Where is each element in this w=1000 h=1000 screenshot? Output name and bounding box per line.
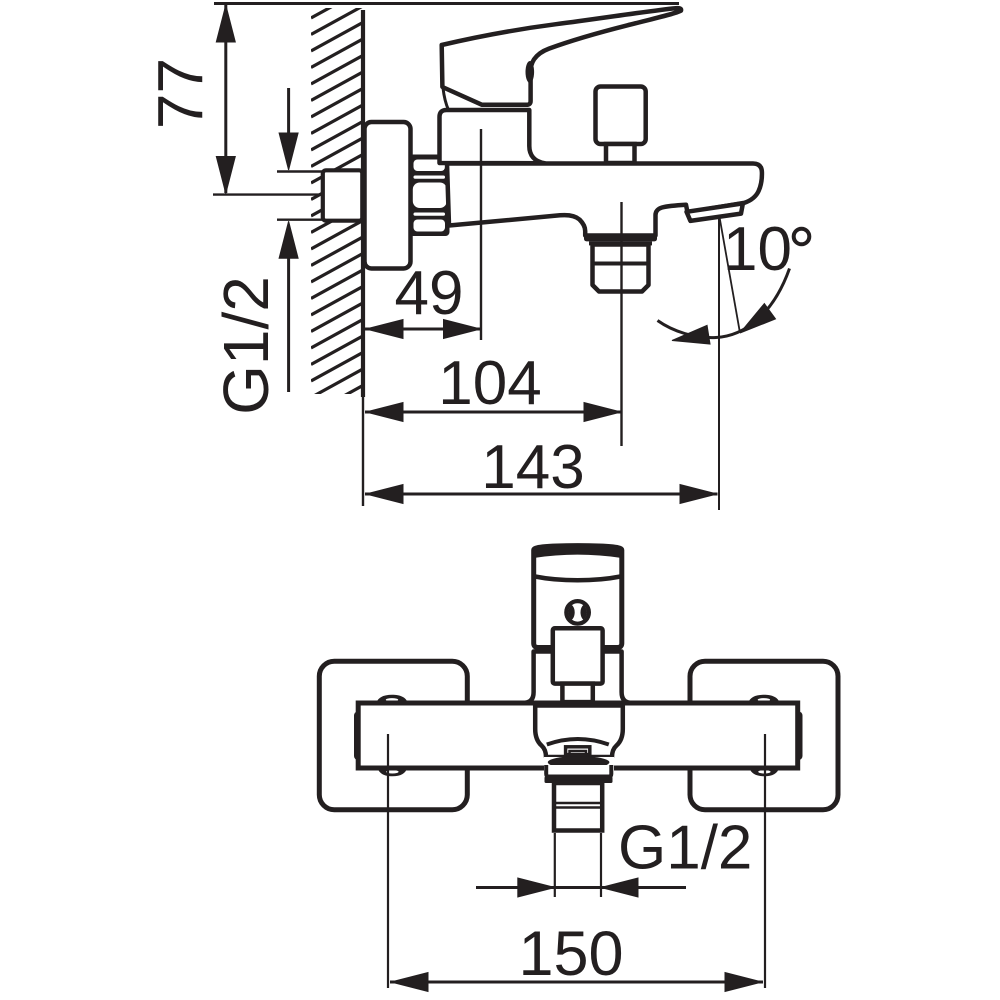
centerline through shower port (104) xyxy=(620,202,622,446)
ext line pipe left xyxy=(554,833,556,897)
pipe axis centerline xyxy=(213,193,388,195)
escutcheon flange xyxy=(365,122,411,269)
wall hatching xyxy=(311,0,363,414)
dim 143 xyxy=(365,493,718,496)
spout funnel (front view) xyxy=(535,706,623,758)
svg-text:77: 77 xyxy=(145,58,217,129)
handle (front view) xyxy=(534,546,622,648)
handle band arc xyxy=(535,577,621,581)
dim 150 xyxy=(390,981,763,984)
dim 49 xyxy=(365,328,481,331)
eraser under cup xyxy=(544,757,614,783)
shower port step xyxy=(589,241,652,245)
aerator arch xyxy=(547,739,609,745)
ext line left plate center xyxy=(387,734,389,988)
wall surface extension line (down to 143 dim) xyxy=(362,397,364,506)
eccentric wall connector xyxy=(323,170,363,220)
dim G1/2 bottom xyxy=(476,886,555,889)
svg-text:143: 143 xyxy=(481,433,584,502)
dim 104 xyxy=(365,411,621,414)
left wall plate xyxy=(319,661,467,810)
svg-text:150: 150 xyxy=(518,919,623,989)
G1/2 extension line lower xyxy=(277,218,324,220)
shower port flange bar xyxy=(584,234,657,242)
pipe thread lines xyxy=(554,802,602,805)
cartridge cap xyxy=(440,110,545,163)
handle neck teardrop xyxy=(526,61,535,83)
body section below handle xyxy=(525,652,630,703)
svg-text:G1/2: G1/2 xyxy=(618,814,752,883)
outlet pipe xyxy=(554,783,602,831)
cap dome arc xyxy=(443,88,449,110)
valve cover bump left bottom xyxy=(378,768,408,777)
dim 77 top reference line xyxy=(214,2,679,5)
lever handle xyxy=(442,8,681,105)
G1/2 extension line upper xyxy=(277,170,324,172)
10 degree swing arc xyxy=(658,269,790,338)
extension line spout tip (143 / 10deg) xyxy=(718,218,720,510)
dim 77 arrow up xyxy=(216,5,235,42)
mixer body bar xyxy=(358,703,798,768)
svg-text:G1/2: G1/2 xyxy=(210,276,282,415)
svg-text:10: 10 xyxy=(723,215,792,284)
ext line right plate center xyxy=(764,734,766,988)
centerline through cartridge (49) xyxy=(480,129,482,340)
diverter knob (side view) xyxy=(596,87,646,145)
bar end cap right xyxy=(795,712,803,761)
right wall plate xyxy=(690,661,838,810)
dim 77 vertical line xyxy=(224,5,227,193)
flow tab xyxy=(566,747,590,755)
10 degree slanted leader xyxy=(720,217,740,332)
svg-text:49: 49 xyxy=(395,259,464,328)
handle top band xyxy=(534,545,622,558)
wall surface line xyxy=(361,10,365,397)
diverter knob stem xyxy=(606,144,635,163)
spout aerator end piece xyxy=(687,203,743,221)
G1/2 dim arrow lower (points up) xyxy=(287,256,290,392)
faucet body (side view) xyxy=(447,164,762,236)
valve cover bump right bottom xyxy=(749,768,779,777)
ext line pipe right xyxy=(600,833,602,897)
shower port nut xyxy=(593,245,649,292)
collar xyxy=(546,765,611,777)
aerator dark ellipse xyxy=(548,756,610,769)
valve cover bump right top xyxy=(748,695,780,704)
valve cover bump left top xyxy=(376,695,408,704)
arc arrowhead right xyxy=(734,304,775,341)
arc arrowhead left xyxy=(671,325,711,350)
dim 77 arrow down xyxy=(216,157,235,194)
locknut band xyxy=(545,777,613,784)
G1/2 dim arrow upper (points down) xyxy=(287,88,290,135)
svg-text:104: 104 xyxy=(438,349,541,418)
indicator dot xyxy=(562,603,594,621)
diverter stem (front view) xyxy=(562,684,592,703)
hex nut on inlet xyxy=(409,155,450,237)
bar end cap left xyxy=(354,712,362,761)
diverter knob (front view) xyxy=(553,628,603,683)
